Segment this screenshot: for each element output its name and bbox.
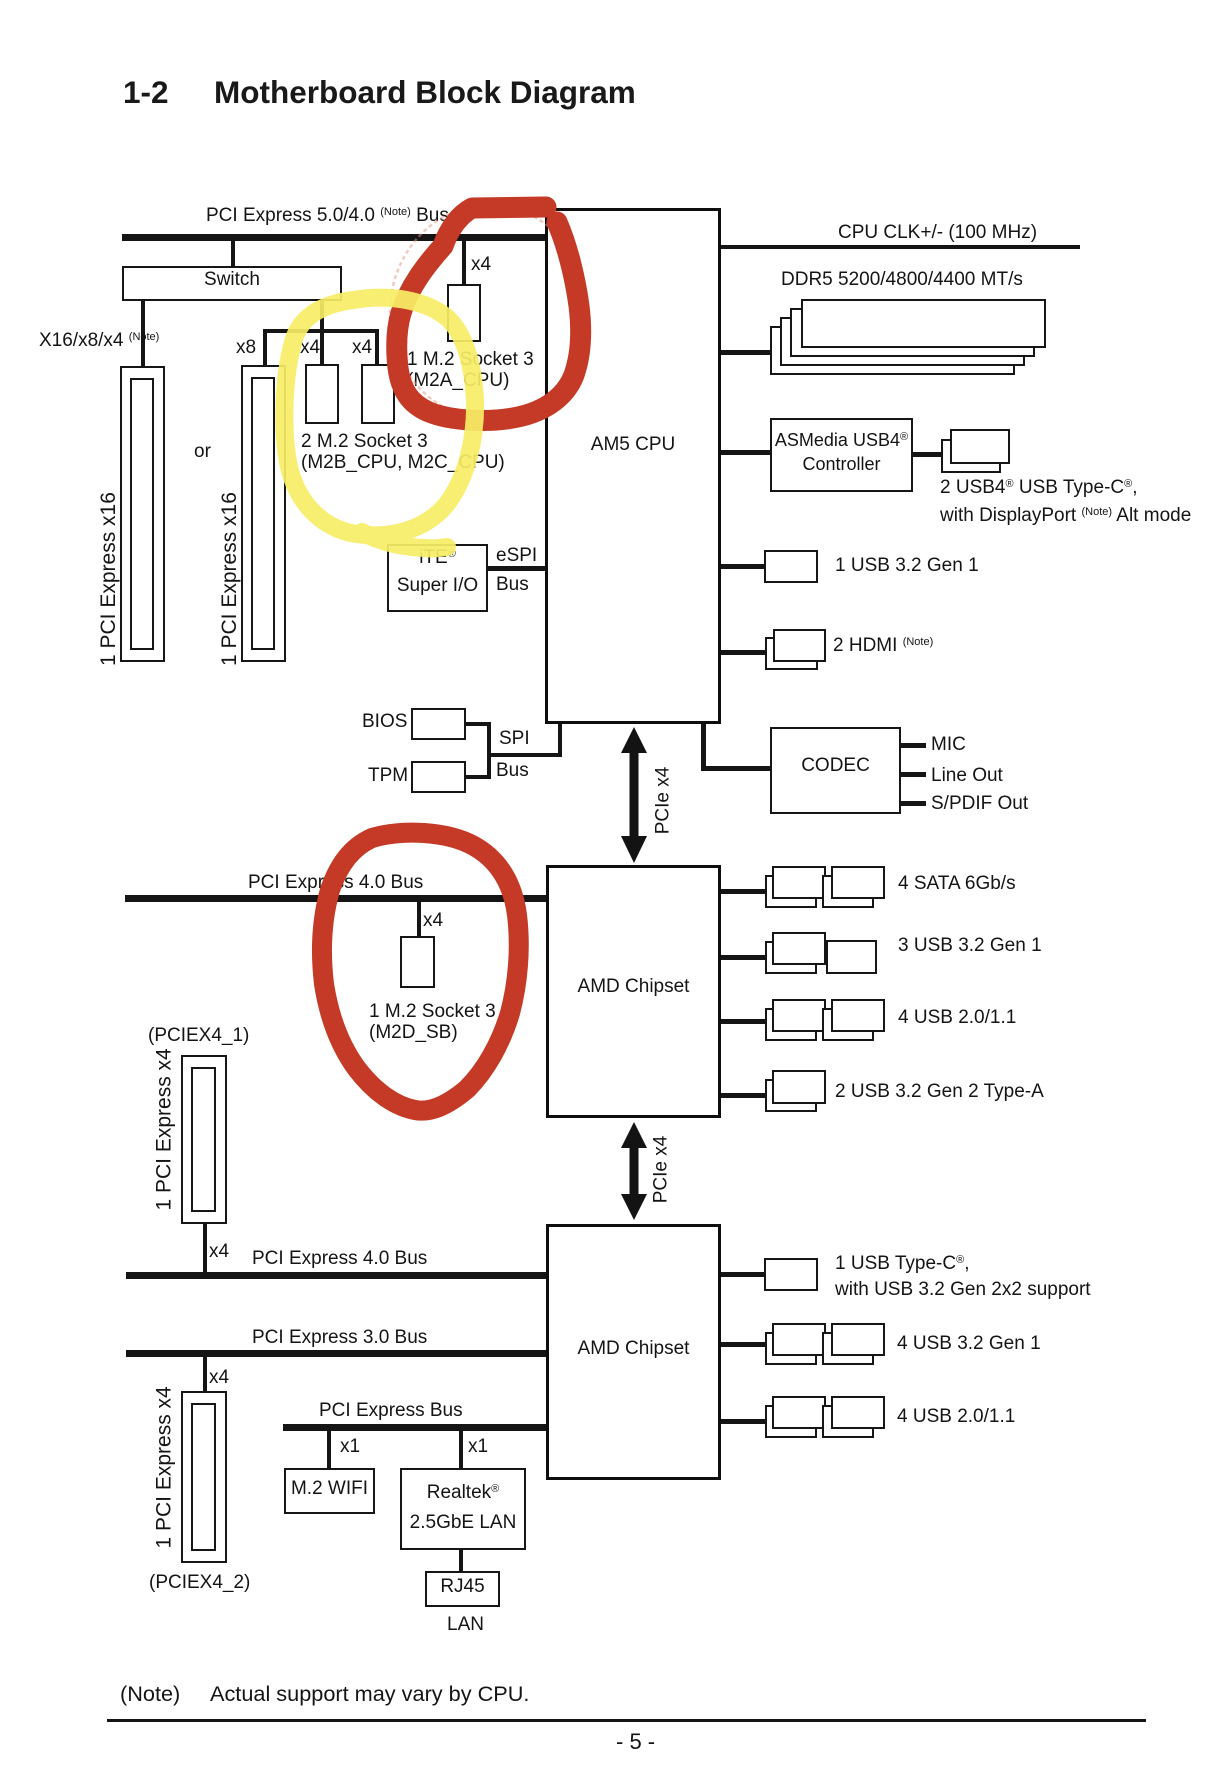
iTE Super I/O box [387,544,488,612]
wire bus4 to slot2 [203,1357,207,1391]
wire CPU to DDR5 [721,350,770,355]
label X16/x8/x4 (Note) [39,330,159,354]
label 1 M.2 Socket 3 (M2A_CPU) [407,349,534,391]
AMD chipset 1 box [546,865,721,1118]
chipset1 row: 2 USB 3.2 Gen 2 Type-A [721,1093,765,1098]
USB4 type-C port back [941,439,1001,473]
label 2 USB4 USB Type-C [940,475,1191,531]
BIOS box [411,708,466,740]
M.2 WIFI box [284,1468,375,1514]
HDMI port back [765,637,818,670]
AM5 CPU box [545,208,721,724]
label eSPI Bus [496,545,537,566]
label PCI Express 4.0 Bus (upper) [248,872,423,893]
wire CPU to HDMI [721,650,765,655]
pcie x16 slot A inner [130,378,154,650]
wire iTE to CPU [488,566,545,571]
wire SPI vertical V1 [487,722,491,779]
label 1 M.2 Socket 3 (M2D_SB) [369,1001,496,1043]
wire bus5 to Realtek [459,1431,463,1468]
note line [120,1681,180,1707]
PCIe x4 arrow chipset1-chipset2 [621,1122,647,1220]
label TPM [368,765,408,786]
label PCI Express 3.0 Bus [252,1327,427,1348]
chipset1 row: 4 SATA [721,889,765,894]
yellow circle annotation (M2B/M2C) [284,298,475,549]
chipset1 row: 3 USB 3.2 Gen 1 [721,955,765,960]
label Line Out [931,765,1003,786]
wire junction horizontal [263,329,379,333]
red circle annotation (M2D_SB) [322,833,519,1111]
label x4 slot1 [209,1241,229,1262]
label x1 wifi [340,1436,360,1457]
wire bus1 to M2A [462,241,466,284]
label or [194,441,211,462]
RJ45 box [425,1571,500,1607]
M.2 socket M2B box [305,364,339,424]
wire bus1 to Switch [231,241,235,266]
wire MIC [899,743,926,748]
label x4 second [352,337,372,358]
wire switch to junction [320,301,324,331]
label x4 (M2D) [423,910,443,931]
chipset2 row: 4 USB 2.0/1.1 [721,1419,765,1424]
HDMI port front [773,629,826,662]
label BIOS [362,711,407,732]
chipset2 row: 1 USB Type-C [721,1272,764,1277]
wire bus5 to M.2 WIFI [327,1431,331,1468]
label SPI Bus [499,728,530,749]
label PCI Express 5.0/4.0 (Note) Bus [206,205,449,229]
label S/PDIF Out [931,793,1028,814]
wire junction to M2B [320,333,324,364]
ASMedia USB4 controller box [770,418,913,492]
wire bus2 to M2D [417,902,421,936]
wire bus5 thick [283,1424,546,1431]
label 1 PCI Express x4 (slot1 rotated) [154,1069,175,1211]
label PCI Express 4.0 Bus (lower) [252,1248,427,1269]
CODEC connector [701,724,706,771]
USB4 type-C port front [950,429,1010,464]
title "1-2 Motherboard Block Diagram" [123,74,169,111]
wire junction to M2C [375,333,379,364]
pcie x16 slot B inner [251,377,275,650]
red circle annotation (M2A_CPU) [397,207,581,420]
footer rule [107,1719,1146,1722]
label (PCIEX4_1) [148,1025,249,1046]
label 2 HDMI (Note) [833,635,933,659]
label x4 (M2A) [471,254,491,275]
label x8 [236,337,256,358]
Realtek 2.5GbE LAN box [400,1468,526,1550]
pcie x16 slot B outer [241,365,286,662]
label (PCIEX4_2) [149,1572,250,1593]
page number [616,1729,655,1755]
wire bus3 thick [126,1272,546,1279]
M.2 socket M2D box [400,936,435,988]
wire switch to PCIe x16 slot A [141,301,145,366]
wire Line Out [899,772,926,777]
wire TPM stub [466,775,491,779]
wire SPI vertical V2 to CPU [558,724,562,757]
wire CPU to ASMedia [721,450,770,455]
wire CPU CLK line [721,245,1080,249]
label CPU CLK [838,222,1037,243]
M.2 socket M2C box [361,364,395,424]
pcie x4 slot 2 outer [181,1391,227,1563]
label x1 lan [468,1436,488,1457]
wire bus1 PCIe 5.0/4.0 thick [122,234,546,241]
wire junction to slot B (x8) [263,331,267,365]
label x4 slot2 [209,1367,229,1388]
wire CPU to USB3.2 Gen1 [721,564,764,569]
label PCIe x4 (lower arrow, rotated) [651,1130,672,1210]
chipset2 row: 4 USB 3.2 Gen 1 [721,1342,765,1347]
wire Realtek to RJ45 [459,1550,463,1571]
AMD chipset 2 box [546,1224,721,1480]
label LAN [447,1614,484,1635]
label x4 first [300,337,320,358]
USB 3.2 gen1 port box [764,550,818,583]
label PCIe x4 (upper arrow, rotated) [653,761,674,841]
wire slot1 to bus3 [203,1224,207,1275]
wire BIOS stub [466,722,491,726]
label 1 USB 3.2 Gen 1 [835,555,979,576]
label 1 PCI Express x4 (slot2 rotated) [154,1407,175,1549]
label 1 PCI Express x16 (slot A, rotated) [98,511,119,666]
PCIe x4 arrow CPU-chipset1 [621,727,647,863]
label DDR5 [781,269,1023,290]
DDR5 DIMM stack [770,326,1015,375]
TPM box [411,761,466,793]
wire bus2 thick [125,895,546,902]
pcie x4 slot 2 inner [191,1403,216,1551]
label PCI Express Bus [319,1400,463,1421]
faint sketch circle (top, light red) [390,205,588,419]
pcie x4 slot 1 inner [191,1067,216,1212]
wire bus4 thick [126,1350,546,1357]
wire SPI bus horizontal [487,753,562,757]
wire S/PDIF Out [899,801,926,806]
CODEC box [770,727,901,814]
label 2 M.2 Socket 3 (M2B_CPU, M2C_CPU) [301,431,505,473]
label MIC [931,734,966,755]
pcie x16 slot A outer [120,366,165,662]
wire ASMedia to TypeC [913,452,941,457]
chipset1 row: 4 USB 2.0/1.1 [721,1019,765,1024]
pcie x4 slot 1 outer [181,1055,227,1224]
switch box [122,266,342,301]
label 1 PCI Express x16 (slot B, rotated) [219,511,240,666]
M.2 socket M2A box [447,284,481,342]
